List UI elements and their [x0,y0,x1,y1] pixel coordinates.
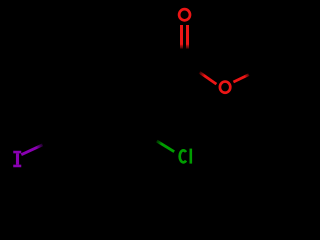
benzene ring C6-C1 bond [104,64,145,87]
bond C2-Cl green half (toward Cl) [157,141,174,152]
bond C2-Cl black half [142,131,158,141]
bond O-CH3 red half (from O) [233,74,249,82]
benzene ring C4-C5 bond [63,87,64,133]
benzene ring C2-C3 bond [103,131,142,154]
bond C4-I black half [42,133,63,145]
ester oxygen O label (letter O drawn as ring) [220,82,230,93]
bond C1 to carbonyl carbon C7 [145,63,185,86]
carbonyl oxygen O label (letter O drawn as ring) [179,9,190,20]
benzene ring C1-C2 bond (wire, black on black) [142,86,145,131]
aromatic inner double bond C5-C6 [70,70,105,90]
benzene ring C5-C6 bond [64,64,104,88]
bond O-CH3 black half (methyl C8 end) [249,67,264,74]
chlorine Cl label: letter l drawn as bar [190,149,193,164]
chlorine Cl label: letter C drawn as open arc [180,150,186,162]
ester bond C7-O black half [185,63,201,74]
bond C4-I purple half (toward I) [21,145,42,155]
aromatic inner double bond C1-C2 [137,90,140,127]
carbonyl C7=O double bond black halves [180,47,183,63]
ester bond C7-O red half (toward O) [200,72,217,84]
molecule: methyl 2-chloro-4-iodobenzoate skeletal structure [0,0,300,176]
iodine I label: serif capital I drawn from bars [13,151,21,168]
benzene ring C3-C4 bond [63,133,103,154]
carbonyl C7=O double bond red halves (toward O) [180,25,183,49]
aromatic inner double bond C3-C4 [69,130,103,148]
